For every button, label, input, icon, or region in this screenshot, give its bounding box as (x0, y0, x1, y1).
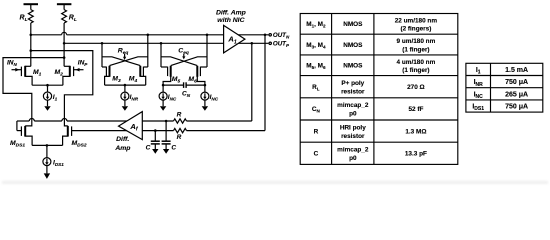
node MDS source junction (46, 144, 49, 147)
capacitor C left (151, 131, 160, 154)
svg-text:1.5 mA: 1.5 mA (505, 67, 528, 74)
svg-text:C: C (171, 144, 176, 151)
svg-text:HRI poly: HRI poly (340, 124, 366, 131)
current source INC right (201, 85, 209, 100)
svg-text:with NIC: with NIC (217, 17, 244, 24)
svg-text:750 μA: 750 μA (505, 104, 528, 111)
transistor M2 (63, 66, 74, 85)
wire M3/M4 common source (105, 85, 146, 92)
label Ceq arrow (182, 54, 185, 59)
transistor M4 cross pair right (140, 35, 148, 85)
svg-text:(1 finger): (1 finger) (402, 46, 429, 53)
node N tap junction (30, 49, 33, 52)
node OUT_N terminal (269, 34, 271, 36)
node source junction (46, 84, 49, 87)
svg-text:270 Ω: 270 Ω (407, 84, 425, 91)
svg-text:9 um/180 nm: 9 um/180 nm (397, 38, 436, 45)
svg-text:52 fF: 52 fF (408, 106, 423, 113)
op-amp Af (119, 112, 143, 140)
transistor MDS2 (63, 126, 72, 145)
resistor RL right (62, 10, 67, 67)
node CN left junction (162, 84, 165, 87)
svg-text:mimcap_2: mimcap_2 (337, 102, 369, 109)
wire feedback upper (Af output to MDS1 gate) (17, 119, 129, 122)
node cap C right junction (165, 120, 168, 123)
wire IN_P to MDS2 drain (74, 69, 84, 71)
transistor M5 cross pair left (161, 43, 171, 85)
node IN_N arrow (15, 68, 19, 72)
svg-text:22 um/180 nm: 22 um/180 nm (395, 17, 438, 24)
label Req arrow (123, 54, 126, 60)
svg-text:(1 finger): (1 finger) (402, 67, 429, 74)
svg-text:(2 fingers): (2 fingers) (400, 26, 431, 33)
capacitor C right (162, 121, 171, 154)
svg-text:NMOS: NMOS (343, 63, 363, 70)
svg-text:R: R (177, 111, 182, 118)
svg-text:NMOS: NMOS (343, 42, 363, 49)
wire M1/M2 common source (32, 85, 63, 92)
table main (300, 14, 458, 165)
wire feedback vertical to OUT_P (251, 43, 253, 121)
node OUT_P terminal (269, 42, 271, 44)
wire OUT_P (238, 42, 268, 44)
svg-text:265 μA: 265 μA (505, 91, 528, 98)
supply rail left (24, 4, 39, 9)
node M3/M4 source junction (124, 84, 127, 87)
wire cross diagonals Ceq pair (161, 57, 207, 66)
transistor M3 cross pair left (102, 43, 110, 85)
current source IDS1 (43, 158, 51, 166)
wire OUT_N (238, 34, 268, 36)
resistor RL left (28, 10, 33, 67)
svg-text:4 um/180 nm: 4 um/180 nm (397, 59, 436, 66)
svg-text:p0: p0 (349, 111, 357, 118)
ground (122, 100, 128, 111)
transistor M6 cross pair right (197, 35, 207, 85)
wire MDS common source (32, 145, 63, 157)
node P tap junction (63, 56, 66, 59)
wire bus N (31, 32, 224, 35)
svg-text:C: C (146, 144, 151, 151)
transistor M1 (21, 66, 32, 85)
svg-text:R: R (177, 134, 182, 141)
ground (202, 100, 208, 111)
scan artifact bottom edge (2, 181, 548, 183)
wire feedback vertical to OUT_N (264, 35, 266, 131)
node OUT_P junction (251, 42, 254, 45)
svg-text:Diff.: Diff. (116, 136, 129, 143)
current source INC left (159, 85, 167, 100)
node OUT_N junction (264, 34, 267, 37)
supply rail right (57, 4, 72, 9)
wire feedback lower (Af output to MDS2 gate) (72, 130, 130, 132)
transistor MDS1 (17, 121, 32, 145)
wire node N to MDS2 drain (31, 51, 93, 126)
svg-text:1.3 MΩ: 1.3 MΩ (405, 128, 426, 135)
svg-text:R: R (314, 128, 319, 135)
node CN right junction (204, 84, 207, 87)
svg-text:750 μA: 750 μA (505, 79, 528, 86)
svg-text:Diff. Amp: Diff. Amp (216, 9, 246, 16)
capacitor CN (163, 82, 205, 88)
current source INR (121, 92, 129, 100)
current source I1 (43, 92, 51, 100)
wire cross diagonals Req pair (102, 57, 148, 66)
wire node P to MDS1 drain (3, 58, 64, 126)
svg-text:P+ poly: P+ poly (341, 80, 364, 87)
svg-text:NMOS: NMOS (343, 21, 363, 28)
node cap C left junction (154, 129, 157, 132)
svg-text:resistor: resistor (341, 133, 365, 140)
wire IN_N to MDS1 drain (12, 69, 22, 71)
svg-text:Amp: Amp (114, 145, 130, 152)
svg-text:13.3 pF: 13.3 pF (405, 151, 427, 158)
resistor R upper (142, 119, 251, 123)
node IN_P arrow (76, 68, 80, 72)
svg-text:p0: p0 (349, 155, 357, 162)
svg-text:resistor: resistor (341, 88, 365, 95)
svg-text:C: C (314, 151, 319, 158)
wire bus P (64, 42, 223, 44)
ground (160, 100, 166, 111)
op-amp A1 (224, 25, 245, 53)
table currents (466, 63, 543, 112)
svg-text:mimcap_2: mimcap_2 (337, 147, 369, 154)
resistor R lower (142, 128, 265, 132)
node bus junctions (30, 34, 209, 45)
ground (44, 166, 50, 179)
ground (44, 100, 50, 111)
